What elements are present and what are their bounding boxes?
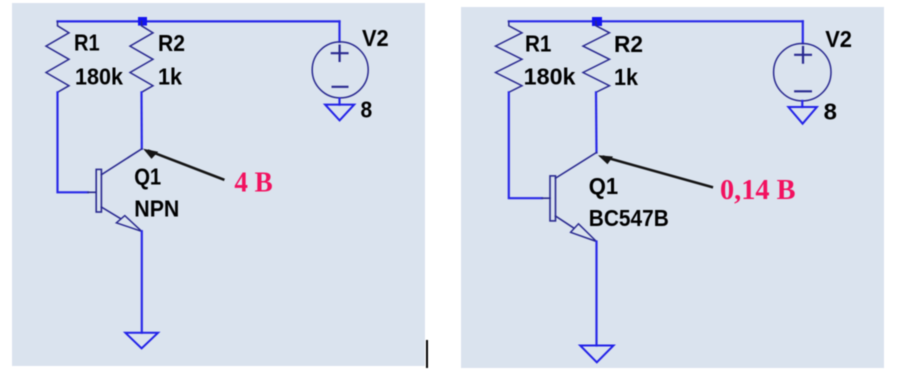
svg-text:0,14 В: 0,14 В [720,175,796,206]
wire R2 bottom to collector [140,92,143,149]
voltage source V2 circle [312,42,368,98]
transistor Q1 emitter arrowhead [116,216,141,232]
transistor Q1 base bar [550,176,556,221]
annotation arrow [604,157,712,187]
wire emitter down [595,242,597,346]
V2 minus sign [795,90,811,92]
wire R1 bottom to base [58,92,89,192]
right schematic panel [461,7,884,368]
svg-text:1k: 1k [158,64,182,90]
wire top rail [58,20,340,22]
wire top rail [509,20,803,22]
V2 minus sign [333,86,348,88]
ground (emitter) [125,333,158,349]
ground (V2) [788,107,817,124]
svg-text:Q1: Q1 [134,164,161,190]
wire R1 bottom to base [509,92,542,198]
svg-text:8: 8 [824,99,838,125]
svg-text:180k: 180k [75,64,123,90]
wire to V2 [338,21,340,41]
svg-text:R1: R1 [525,30,552,56]
resistor R1 [496,21,523,92]
wire R2 bottom to collector [595,92,598,152]
V2 plus sign [795,47,811,63]
V2 plus sign [332,46,348,61]
resistor R2 [130,21,153,92]
svg-text:Q1: Q1 [589,173,619,199]
node junction square [592,17,602,26]
resistor R2 [583,21,610,92]
transistor Q1 base lead [542,197,550,199]
transistor Q1 collector stroke [101,149,141,175]
voltage source V2 circle [774,43,831,100]
svg-text:NPN: NPN [134,195,179,221]
svg-text:180k: 180k [524,64,576,90]
wire V2 bottom [801,101,803,107]
resistor R1 [46,21,69,92]
wire emitter down [141,231,143,332]
transistor Q1 emitter stroke [556,216,574,228]
ground (V2) [325,105,354,121]
transistor Q1 base bar [96,169,101,212]
wire to V2 [802,21,804,43]
text cursor mark [426,340,429,368]
svg-text:V2: V2 [825,26,852,52]
transistor Q1 emitter arrowhead [571,224,597,242]
svg-text:8: 8 [361,97,373,123]
svg-text:BC547B: BC547B [589,205,669,231]
svg-text:V2: V2 [362,25,389,51]
left schematic panel [12,3,425,366]
transistor Q1 base lead [88,191,96,193]
svg-text:R2: R2 [614,31,643,57]
transistor Q1 collector stroke [556,153,597,179]
svg-text:1k: 1k [614,64,638,90]
svg-text:4 В: 4 В [234,168,272,199]
wire V2 bottom [338,99,340,105]
svg-text:R1: R1 [74,30,100,56]
annotation arrow [149,151,223,180]
transistor Q1 emitter stroke [101,207,120,219]
node junction square [138,17,147,26]
ground (emitter) [580,346,613,363]
svg-text:R2: R2 [158,30,185,56]
